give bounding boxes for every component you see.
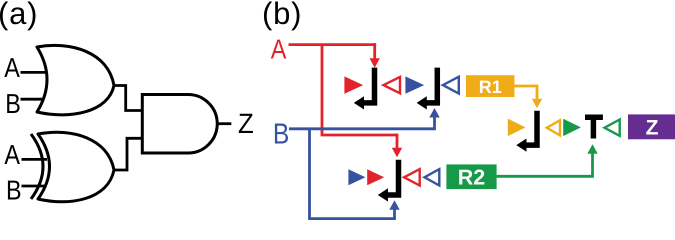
wire blue B horizontal <box>289 127 435 130</box>
wire A to OR gate <box>21 71 47 74</box>
svg-text:R2: R2 <box>458 165 486 189</box>
output gate black seesaw glyph <box>516 111 537 152</box>
output gate black T (threshold) glyph <box>585 115 603 139</box>
gate1 red input triangle <box>344 76 363 93</box>
gate1 blue input triangle <box>405 76 424 93</box>
svg-text:B: B <box>273 118 289 150</box>
wire AND output to Z <box>217 122 231 125</box>
wire red A horizontal <box>289 43 377 46</box>
svg-text:Z: Z <box>238 108 254 139</box>
box R2 <box>446 164 496 189</box>
wire blue up into gate2 with arrow <box>389 200 399 220</box>
svg-text:(b): (b) <box>262 0 302 31</box>
svg-text:A: A <box>271 34 287 65</box>
gate2 blue output triangle (hollow) <box>425 169 440 185</box>
gate2 blue input triangle <box>348 169 365 185</box>
wire XOR output to AND bottom input <box>114 138 142 170</box>
gate2 black seesaw glyph <box>378 160 399 202</box>
label (b) <box>262 0 302 31</box>
svg-text:B: B <box>6 175 22 206</box>
wire OR output to AND top input <box>114 86 142 111</box>
XOR gate <box>31 132 114 202</box>
gate1 red output triangle (hollow) <box>384 77 401 93</box>
wire red A down into gate1 with arrow <box>370 43 380 68</box>
node B (OR input) <box>5 88 21 119</box>
svg-text:Z: Z <box>646 117 659 140</box>
AND gate <box>142 95 217 154</box>
wire red branch down to gate2 row <box>322 45 397 135</box>
output gate green output triangle (hollow) <box>605 120 620 136</box>
svg-text:B: B <box>5 88 21 119</box>
node A (red input) <box>271 34 287 65</box>
wire green R2 to T with arrow <box>497 144 598 176</box>
label (a) <box>0 0 38 31</box>
svg-text:R1: R1 <box>479 77 502 97</box>
gate2 red input triangle <box>367 169 384 185</box>
node A (XOR input) <box>4 139 20 170</box>
wire blue up into gate1 with arrow <box>429 108 439 130</box>
wire A to XOR gate <box>22 158 48 161</box>
OR gate <box>37 45 114 114</box>
output gate yellow output triangle (hollow) <box>547 120 560 135</box>
wire B to XOR gate <box>22 185 48 188</box>
output gate green input triangle <box>563 119 581 136</box>
gate1 black seesaw glyph (A side) <box>354 68 375 110</box>
node B (blue input) <box>273 118 289 150</box>
node B (XOR input) <box>6 175 22 206</box>
svg-text:A: A <box>4 52 20 83</box>
svg-text:(a): (a) <box>0 0 38 31</box>
svg-text:A: A <box>4 139 20 170</box>
wire red down into gate2 with arrow <box>392 134 402 158</box>
wire B to OR gate <box>21 98 47 101</box>
box R1 <box>466 75 515 97</box>
box Z <box>628 114 675 139</box>
gate1 black seesaw glyph (B side) <box>417 68 438 110</box>
node Z <box>238 108 254 139</box>
gate2 red output triangle (hollow) <box>404 169 420 185</box>
node A (OR input) <box>4 52 20 83</box>
wire yellow R1 to output gate with arrow <box>515 86 543 108</box>
gate1 blue output triangle (hollow) <box>443 77 459 94</box>
wire blue branch down to bottom rail <box>310 129 395 219</box>
output gate yellow input triangle <box>508 119 526 136</box>
